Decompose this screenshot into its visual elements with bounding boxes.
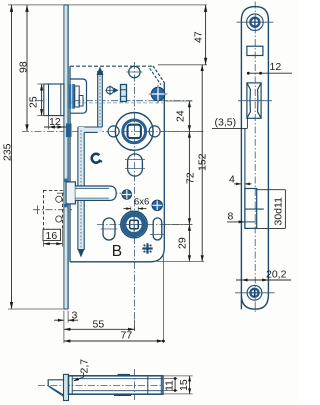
phillips screw mark <box>142 243 152 253</box>
faceplate outline <box>241 7 268 310</box>
dim 77 <box>162 252 164 343</box>
inner line (4 offset) <box>244 128 246 228</box>
left obround hole <box>103 218 115 240</box>
latch bolt front view <box>44 84 64 116</box>
svg-text:20,2: 20,2 <box>266 269 287 281</box>
extension line top (faceplate top) <box>8 4 207 6</box>
follower axis centerline <box>22 130 203 132</box>
dim 20,2 <box>236 279 291 281</box>
latch body in case <box>70 79 87 113</box>
dim 47 line <box>205 5 207 65</box>
top screw <box>247 14 264 31</box>
dim 25 <box>38 83 47 85</box>
deadbolt slot marks in faceplate <box>64 179 68 182</box>
handle follower <box>115 112 153 150</box>
follower right lobe <box>149 126 160 137</box>
svg-text:25: 25 <box>28 96 40 108</box>
dim 12 (latch hole) <box>247 72 292 74</box>
obround below follower <box>128 154 143 176</box>
phantom bolt pin bottom <box>56 216 62 222</box>
dim 24 <box>166 100 193 102</box>
svg-text:77: 77 <box>121 330 133 342</box>
dim 72 <box>188 131 190 224</box>
deadbolt axis centerline <box>57 192 121 194</box>
case bar outline <box>69 376 164 394</box>
lock case outline <box>70 65 153 67</box>
vertical rod upper <box>98 71 103 127</box>
30d11 bracket <box>257 189 286 191</box>
dim 235 line <box>11 5 13 309</box>
svg-text:29: 29 <box>177 237 189 249</box>
dim 3 <box>67 311 69 323</box>
deadbolt tail <box>75 186 116 200</box>
extension line case top right <box>158 64 207 66</box>
rod bottom arrow <box>78 249 85 258</box>
dim 98 line <box>26 5 28 131</box>
hidden line across case <box>71 102 163 104</box>
svg-text:12: 12 <box>49 116 61 128</box>
bottom screw <box>247 285 262 300</box>
dim 16 box <box>43 229 61 240</box>
svg-text:30d11: 30d11 <box>273 197 285 226</box>
svg-text:72: 72 <box>185 172 197 184</box>
case chamfer inner line <box>150 68 161 85</box>
WC follower axis centerline <box>97 224 192 226</box>
follower left lobe <box>108 126 119 137</box>
dim 152 <box>157 261 204 263</box>
svg-text:2,7: 2,7 <box>79 359 91 374</box>
svg-text:15: 15 <box>178 379 190 391</box>
svg-text:B: B <box>112 243 122 260</box>
top rectangular hole <box>247 46 263 55</box>
case front wall strip <box>69 66 71 262</box>
svg-text:16: 16 <box>46 230 58 242</box>
svg-text:55: 55 <box>93 319 105 331</box>
cylinder fixing screw <box>149 93 168 95</box>
case inner wall lines <box>71 376 73 394</box>
rod top arrow <box>97 67 104 76</box>
latch wedge (beveled tip) <box>48 380 63 395</box>
WC follower <box>121 211 148 238</box>
phantom bolt pin top <box>56 196 62 202</box>
dim 15 <box>164 375 193 377</box>
phantom thrown bolt (dashed) <box>44 190 63 229</box>
dim 29 <box>165 224 193 226</box>
main vertical centerline <box>133 62 135 331</box>
svg-text:11: 11 <box>164 380 176 391</box>
adjuster rectangle <box>121 85 127 102</box>
vertical rod lower <box>78 127 84 250</box>
svg-text:98: 98 <box>18 61 30 73</box>
spring curl <box>92 154 100 163</box>
svg-text:6x6: 6x6 <box>134 197 149 208</box>
latch face curves <box>247 83 251 118</box>
dim 55 <box>63 311 65 344</box>
bottom view centerline <box>38 385 163 387</box>
svg-text:(3,5): (3,5) <box>215 117 237 129</box>
faceplate centerline <box>254 2 256 314</box>
latch hole <box>247 83 261 118</box>
faceplate edge strip <box>64 374 69 400</box>
svg-text:12: 12 <box>270 61 282 73</box>
follower square hole <box>128 125 141 138</box>
(3,5) label <box>246 118 248 128</box>
rod elbow <box>78 127 102 132</box>
svg-text:24: 24 <box>175 110 187 122</box>
follower ring <box>123 120 146 143</box>
6x6 mini dimension <box>130 207 132 212</box>
svg-text:8: 8 <box>228 211 234 223</box>
small screw with pin <box>106 87 113 94</box>
deadbolt head <box>66 182 75 204</box>
top screw hole <box>129 66 140 77</box>
phantom bolt centerline <box>33 209 72 211</box>
dim 11 <box>164 378 178 380</box>
small bumps on edges <box>118 374 131 376</box>
latch axis centerline <box>36 100 192 102</box>
svg-text:152: 152 <box>197 153 209 171</box>
right obround hole <box>153 218 162 240</box>
svg-text:47: 47 <box>193 31 205 43</box>
extension line faceplate bottom <box>8 308 64 310</box>
case end wall <box>147 376 149 394</box>
fixing screw above right obround <box>152 200 162 210</box>
faceplate strip (front view) <box>64 5 68 309</box>
follower axis in bottom view <box>133 369 135 400</box>
svg-text:3: 3 <box>72 310 78 322</box>
screw left of 6x6 <box>122 190 132 200</box>
dim 12 latch <box>48 116 50 130</box>
deadbolt slot <box>245 189 257 229</box>
svg-text:235: 235 <box>2 143 14 161</box>
